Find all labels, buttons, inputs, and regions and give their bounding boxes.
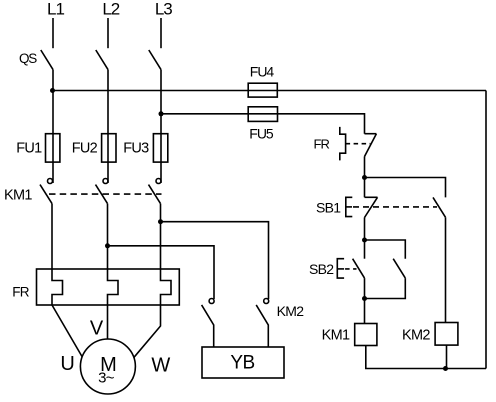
- svg-text:U: U: [60, 353, 74, 375]
- svg-text:KM1: KM1: [322, 328, 350, 344]
- svg-text:FU3: FU3: [123, 141, 149, 157]
- svg-text:L2: L2: [102, 0, 119, 19]
- svg-text:3~: 3~: [98, 370, 115, 387]
- svg-text:SB1: SB1: [316, 200, 341, 216]
- svg-text:QS: QS: [19, 51, 37, 66]
- svg-text:FU1: FU1: [16, 141, 42, 157]
- svg-text:KM2: KM2: [277, 303, 305, 319]
- svg-text:FR: FR: [12, 285, 30, 300]
- svg-text:L1: L1: [47, 0, 64, 19]
- svg-text:FR: FR: [314, 137, 330, 152]
- svg-text:SB2: SB2: [309, 261, 334, 277]
- svg-text:L3: L3: [155, 0, 172, 19]
- svg-text:V: V: [90, 318, 104, 340]
- svg-text:YB: YB: [230, 353, 254, 374]
- svg-text:FU5: FU5: [249, 126, 274, 142]
- svg-text:KM1: KM1: [4, 188, 32, 204]
- svg-text:FU2: FU2: [72, 141, 98, 157]
- svg-text:KM2: KM2: [402, 328, 430, 344]
- svg-text:FU4: FU4: [250, 64, 275, 80]
- svg-text:W: W: [151, 354, 170, 376]
